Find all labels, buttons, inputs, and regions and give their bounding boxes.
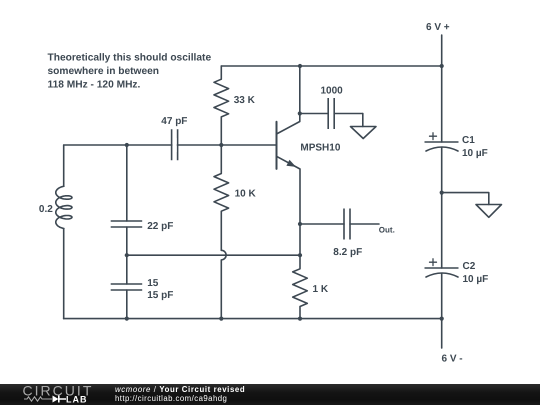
svg-text:15: 15 [147,278,159,289]
svg-text:6 V +: 6 V + [426,22,450,33]
resistor R3 1 K [293,255,329,318]
svg-text:10 µF: 10 µF [463,274,489,285]
svg-text:1 K: 1 K [313,284,329,295]
svg-text:MPSH10: MPSH10 [300,142,340,153]
capacitor C2 10 uF polarized [425,259,489,285]
capacitor 22 pF [111,145,174,284]
svg-text:C1: C1 [462,135,475,146]
wire base rail [64,144,277,146]
node 6V+ label [426,22,450,33]
node junction base / 33K-10K [219,143,223,147]
svg-text:0.2: 0.2 [39,204,53,215]
transistor Q1 MPSH10 [277,66,341,255]
wire top rail [221,65,441,67]
node junction emitter / out branch [298,222,302,226]
svg-text:Out.: Out. [379,225,395,234]
svg-text:6 V -: 6 V - [442,354,463,365]
svg-text:10 µF: 10 µF [462,148,488,159]
svg-text:15 pF: 15 pF [147,290,173,301]
ground symbol (1000 cap) [351,114,377,139]
svg-text:8.2 pF: 8.2 pF [333,247,362,258]
wire bottom rail [64,318,442,320]
capacitor 1000 [300,86,363,130]
footer bar [0,384,540,405]
svg-text:C2: C2 [463,261,476,272]
node junction bottom / 1K [298,317,302,321]
node junction bottom / C rail [125,317,129,321]
node junction top rail / right rail [440,64,444,68]
footer credit line 1 [115,385,245,394]
wire hop: 10K lead hops over mid wire [221,250,226,318]
svg-text:47 pF: 47 pF [161,116,187,127]
capacitor C1 10 uF polarized [425,133,488,159]
svg-text:10 K: 10 K [235,189,257,200]
capacitor 47 pF [161,116,187,160]
svg-text:1000: 1000 [321,86,344,97]
node junction bottom / 10K [219,317,223,321]
svg-text:somewhere in between: somewhere in between [48,66,160,77]
node junction collector / top rail [298,64,302,68]
capacitor 15 pF [111,278,174,319]
wire right rail C2 to bottom [441,273,443,348]
node junction right rail / ground branch [440,191,444,195]
node junction collector / 1000 branch [298,111,302,115]
svg-text:118 MHz - 120 MHz.: 118 MHz - 120 MHz. [48,80,141,91]
wire right rail C1-C2 [441,147,443,268]
svg-text:22 pF: 22 pF [147,221,173,232]
svg-text:LAB: LAB [66,395,88,405]
ground symbol (right) [476,205,502,218]
resistor R2 10 K [214,145,257,250]
wire mid rail [127,254,300,256]
node junction base / C rail [125,143,129,147]
svg-text:Theoretically this should osci: Theoretically this should oscillate [48,53,212,64]
svg-text:33 K: 33 K [234,95,256,106]
node junction mid / C rail [125,253,129,257]
resistor R1 33 K [214,66,256,145]
footer credit line 2 [115,394,227,403]
wire 6V+ stub down to C1 [441,35,443,142]
node 6V- label [442,354,463,365]
capacitor 8.2 pF with Out terminal [300,209,395,259]
node junction bottom / right rail [440,317,444,321]
wire ground branch right [442,193,489,205]
annotation text note [48,53,212,91]
node junction mid / emitter rail [298,253,302,257]
inductor L1 0.2 [39,145,72,319]
CircuitLab logo [0,383,110,405]
